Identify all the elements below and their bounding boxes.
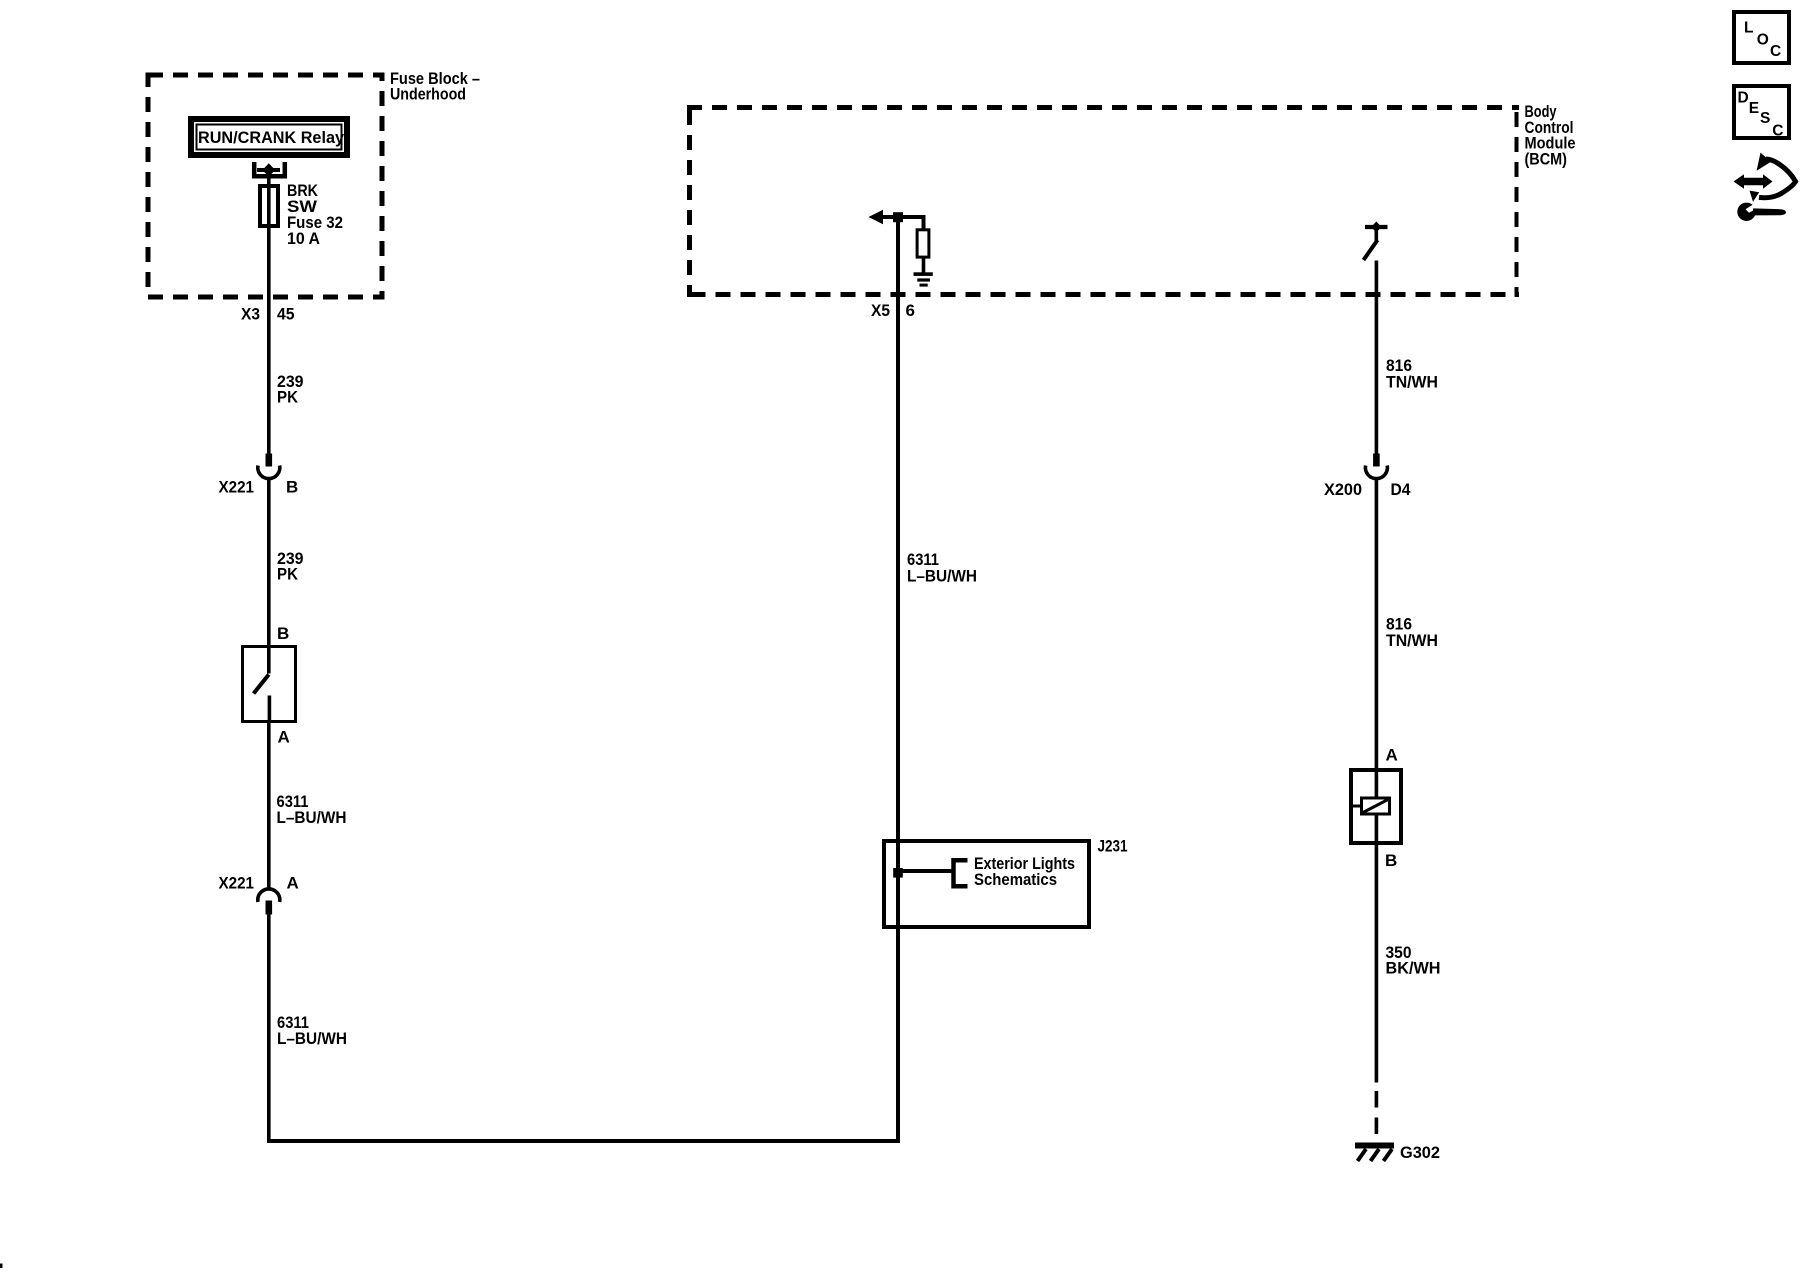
svg-text:L–BU/WH: L–BU/WH <box>277 1029 347 1048</box>
BCM internal arrow <box>869 210 926 224</box>
svg-text:TN/WH: TN/WH <box>1386 631 1438 650</box>
svg-text:X221: X221 <box>219 477 255 496</box>
connector X221 pin A <box>219 874 299 915</box>
bent arrow <box>1759 159 1796 198</box>
svg-text:L–BU/WH: L–BU/WH <box>277 808 347 827</box>
relay pin terminal cup <box>254 162 285 177</box>
svg-text:A: A <box>278 727 290 746</box>
svg-text:A: A <box>1386 745 1398 764</box>
svg-text:J231: J231 <box>1098 837 1128 856</box>
LOC button <box>1734 12 1789 63</box>
svg-text:10 A: 10 A <box>287 229 320 248</box>
svg-text:X3: X3 <box>241 305 260 324</box>
svg-text:B: B <box>1385 851 1397 870</box>
svg-text:D: D <box>1738 90 1749 107</box>
svg-text:PK: PK <box>277 388 299 407</box>
DESC button <box>1734 86 1789 139</box>
svg-text:L–BU/WH: L–BU/WH <box>907 567 977 586</box>
wire X5-6 down to J231 and beyond <box>896 217 900 1143</box>
wire from relay through fuse down to X221 B <box>267 170 271 454</box>
svg-text:C: C <box>1772 122 1783 139</box>
BCM internal ground <box>914 257 933 287</box>
svg-text:B: B <box>277 624 289 643</box>
svg-text:D4: D4 <box>1391 480 1411 499</box>
fuse BRK SW Fuse 32 10 A <box>260 186 278 226</box>
connector X3 pin 45 labels <box>241 305 295 324</box>
svg-text:RUN/CRANK Relay: RUN/CRANK Relay <box>198 128 345 147</box>
wire label 6311 middle <box>907 550 977 585</box>
wrench <box>1737 203 1755 221</box>
J231 exterior lights box <box>884 841 1089 927</box>
wire 816 TN/WH lower <box>1375 478 1379 769</box>
svg-text:45: 45 <box>277 305 295 324</box>
svg-text:X200: X200 <box>1324 480 1362 499</box>
svg-text:X5: X5 <box>871 301 890 320</box>
svg-text:TN/WH: TN/WH <box>1386 372 1438 391</box>
relay coil component box (right) <box>1351 745 1401 870</box>
svg-text:E: E <box>1749 100 1759 117</box>
svg-text:L: L <box>1744 20 1753 37</box>
RUN/CRANK Relay box <box>191 119 347 155</box>
BCM junction node <box>893 212 903 222</box>
fuse label <box>287 181 343 248</box>
svg-text:A: A <box>287 874 299 893</box>
BCM internal switch right <box>1364 222 1388 261</box>
svg-text:B: B <box>286 477 298 496</box>
BCM internal resistor <box>917 217 929 257</box>
ground G302 <box>1355 1143 1440 1163</box>
svg-text:(BCM): (BCM) <box>1525 149 1568 168</box>
wire 6311 to X221 A <box>267 722 271 891</box>
BCM label <box>1525 102 1576 168</box>
wire label 239 PK upper <box>277 372 304 407</box>
connector X5 pin 6 labels <box>871 301 915 320</box>
navigation icon: double arrow, bent arrow, wrench <box>1734 153 1796 221</box>
svg-text:6: 6 <box>906 301 915 320</box>
svg-text:C: C <box>1770 43 1781 60</box>
fuse block underhood label <box>390 69 480 104</box>
BCM dashed box <box>687 104 1519 297</box>
svg-text:S: S <box>1760 110 1770 127</box>
brake switch box <box>243 624 296 746</box>
svg-text:Schematics: Schematics <box>974 870 1057 889</box>
double headed arrow <box>1734 174 1773 189</box>
wire 239 PK lower <box>267 478 271 646</box>
wire bottom horizontal <box>267 1139 900 1143</box>
svg-text:Underhood: Underhood <box>390 85 466 104</box>
wire 6311 bottom left <box>267 915 271 1143</box>
svg-text:X221: X221 <box>219 874 255 893</box>
wire 350 BK/WH <box>1375 843 1379 1083</box>
dashed wire to ground <box>1375 1091 1379 1146</box>
fuse block underhood dashed box <box>148 75 382 297</box>
wire 816 TN/WH upper <box>1375 261 1379 454</box>
connector X200 pin D4 <box>1324 454 1411 500</box>
connector X221 pin B <box>219 454 299 497</box>
svg-text:BK/WH: BK/WH <box>1386 958 1441 977</box>
svg-text:G302: G302 <box>1400 1143 1440 1162</box>
svg-text:O: O <box>1757 31 1769 48</box>
svg-text:PK: PK <box>277 565 299 584</box>
